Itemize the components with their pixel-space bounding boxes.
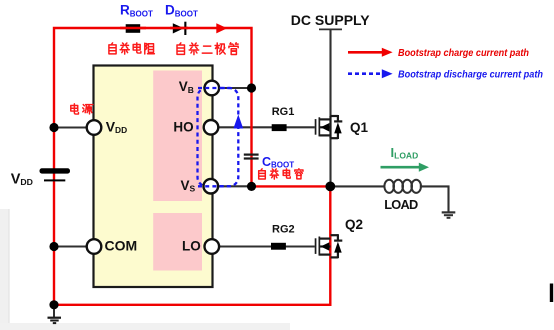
label 自举电阻 (bootstrap resistor)	[109, 43, 154, 54]
ground: load (right)	[442, 212, 456, 217]
wire: VDD tap to VDD pin	[54, 126, 94, 128]
blue up arrowhead on discharge loop	[233, 115, 243, 129]
resistor R_BOOT	[126, 24, 141, 33]
legend: red charge arrow	[348, 48, 393, 57]
wire: black DC supply rail top bar	[319, 28, 342, 30]
svg-text:Bootstrap discharge current pa: Bootstrap discharge current path	[398, 70, 543, 81]
pin circle LO	[205, 239, 220, 254]
legend: blue discharge dashed arrow	[348, 69, 393, 78]
wire: red bootstrap charge loop	[54, 28, 330, 305]
transistor Q2 (N-MOSFET with body diode)	[315, 234, 343, 258]
capacitor C_BOOT plates	[244, 154, 259, 160]
wire: LO pin to Q2 gate	[212, 245, 315, 247]
wire: DC rail down to Q1 drain	[329, 30, 331, 117]
label 电源 (power supply)	[71, 104, 93, 114]
svg-text:LO: LO	[182, 238, 201, 253]
watermark fragment right edge	[550, 284, 553, 303]
wire: HO pin to Q1 gate	[211, 126, 315, 128]
node: switch node	[325, 182, 335, 192]
svg-text:ILOAD: ILOAD	[391, 145, 419, 161]
battery VDD: thin minus plate	[44, 179, 65, 181]
ground: left (main)	[48, 305, 62, 323]
pin circle VB	[205, 81, 220, 96]
svg-text:CBOOT: CBOOT	[262, 155, 294, 170]
svg-text:DBOOT: DBOOT	[165, 3, 198, 19]
node: COM tap	[49, 242, 58, 251]
IC high-side driver block (pink)	[153, 71, 202, 202]
node: VDD tap	[49, 123, 58, 132]
node: ground corner	[49, 300, 58, 309]
red arrowhead on top wire	[216, 23, 227, 33]
wire: inductor to load ground	[420, 186, 449, 212]
battery VDD: thick plus plate	[40, 168, 71, 173]
svg-text:Q2: Q2	[345, 217, 363, 232]
IC low-side driver block (pink)	[153, 213, 202, 271]
IC body	[94, 66, 213, 288]
svg-text:Q1: Q1	[350, 120, 369, 135]
pin circle VS	[204, 179, 219, 194]
pin circle HO	[204, 120, 219, 135]
bootstrap discharge dashed blue loop	[198, 88, 239, 186]
node: VB junction	[247, 83, 256, 92]
label 自举电容 (bootstrap capacitor)	[259, 169, 303, 179]
I_LOAD green arrow	[381, 163, 430, 172]
dashed blue through VS pin	[198, 185, 233, 187]
label 自举二极管 (bootstrap diode)	[177, 43, 238, 55]
gate resistor RG2	[271, 243, 286, 250]
page background shading bottom-left	[0, 209, 290, 330]
wire: Q1 source to switch node	[329, 137, 331, 187]
svg-text:COM: COM	[105, 237, 138, 253]
wire: VB pin to red rail	[212, 87, 252, 89]
inductor LOAD coil	[384, 180, 421, 193]
svg-text:LOAD: LOAD	[384, 197, 418, 212]
wire: COM tap to COM pin	[54, 245, 94, 247]
diode D_BOOT	[173, 22, 187, 35]
svg-text:VDD: VDD	[11, 172, 33, 188]
svg-text:DC SUPPLY: DC SUPPLY	[291, 12, 371, 28]
svg-text:RG2: RG2	[272, 224, 295, 236]
wire: switch node to inductor	[330, 185, 385, 187]
wire: VS pin to red rail	[211, 185, 252, 187]
gate resistor RG1	[272, 124, 287, 131]
node: VS junction	[247, 182, 256, 191]
svg-text:RBOOT: RBOOT	[120, 3, 153, 19]
dashed blue through VB pin	[198, 87, 233, 89]
transistor Q1 (N-MOSFET with body diode)	[315, 115, 343, 139]
red wire over resistor	[120, 27, 146, 29]
red wire over diode	[170, 27, 188, 29]
pin circle VDD	[87, 120, 102, 135]
pin circle COM	[87, 239, 102, 254]
svg-text:Bootstrap charge current path: Bootstrap charge current path	[398, 48, 529, 59]
svg-text:HO: HO	[173, 119, 193, 134]
svg-text:RG1: RG1	[272, 106, 295, 118]
